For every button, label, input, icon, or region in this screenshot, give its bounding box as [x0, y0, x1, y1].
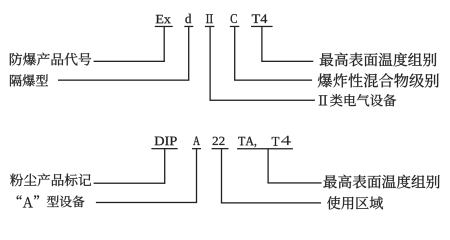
wire C vertical [234, 27, 235, 81]
label gebao [10, 74, 48, 86]
label A-type-text [47, 196, 85, 208]
underline DIP [151, 148, 177, 149]
wire leader II-class [210, 100, 315, 101]
wire II vertical [209, 27, 210, 101]
underline T4 [251, 26, 273, 27]
token DIP [155, 137, 177, 146]
token T4b-T [272, 137, 280, 146]
label shiyong [327, 196, 383, 209]
underline C [230, 26, 239, 27]
token Ex [156, 15, 171, 23]
token C [231, 14, 237, 23]
label zuigao-top [320, 53, 437, 67]
token T4b-4 [281, 136, 291, 145]
wire leader fangbao [94, 61, 165, 62]
wire d vertical [188, 27, 189, 81]
label A-type-quotes [17, 195, 39, 207]
label fangbao [10, 53, 91, 66]
label fenchen [10, 174, 91, 187]
wire TA-T4 vertical [267, 149, 268, 183]
underline d [184, 26, 193, 27]
wire 22 vertical [221, 149, 222, 203]
underline A [192, 148, 201, 149]
token TA, [238, 137, 256, 147]
underline 22 [212, 148, 229, 149]
wire DIP vertical [164, 149, 165, 184]
underline Ex [155, 26, 173, 27]
token d [185, 14, 191, 24]
label baozha [318, 73, 439, 87]
wire leader A-type [96, 202, 197, 203]
underline TA-T4 [237, 148, 293, 149]
wire leader shiyong [221, 202, 321, 203]
wire leader zuigao-top [261, 61, 313, 62]
token II [206, 14, 213, 23]
token 22 [213, 137, 225, 145]
label zuigao-bot [323, 175, 439, 189]
wire leader baozha [234, 80, 312, 81]
underline II [205, 26, 215, 27]
wire A vertical [196, 149, 197, 203]
wire Ex vertical [164, 27, 165, 62]
label II-class [319, 94, 396, 106]
token T4 [252, 14, 267, 23]
wire T4 vertical [261, 27, 262, 62]
wire leader gebao [58, 80, 189, 81]
token A [193, 137, 200, 146]
wire leader zuigao-bot [268, 182, 322, 183]
wire leader fenchen [94, 183, 166, 184]
